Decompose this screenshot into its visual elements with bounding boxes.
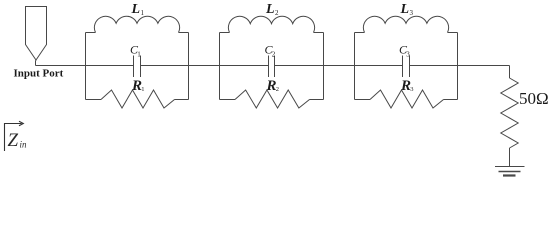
- node Zin: impedance arrow: [5, 121, 24, 151]
- svg-text:in: in: [20, 140, 28, 150]
- wire: main line segment 4: [410, 65, 510, 67]
- wire: to ground: [509, 148, 511, 167]
- inductor L2: [228, 16, 314, 32]
- svg-text:2: 2: [276, 86, 279, 93]
- wire: tank 1 top-left step: [86, 32, 96, 34]
- inductor L3: [363, 16, 448, 32]
- wire: main line segment 1: [36, 65, 134, 67]
- svg-text:Input Port: Input Port: [14, 68, 64, 80]
- resistor R1: [101, 90, 175, 108]
- node: tank 1 left junction: [85, 33, 87, 100]
- capacitor C3: [402, 56, 404, 78]
- wire: tank 2 top-left step: [220, 32, 230, 34]
- svg-text:50Ω: 50Ω: [519, 89, 549, 108]
- wire: right corner down: [509, 66, 511, 79]
- wire: port stem: [35, 60, 38, 66]
- inductor L1: [94, 16, 179, 32]
- svg-text:3: 3: [410, 9, 414, 17]
- svg-text:1: 1: [137, 51, 141, 59]
- wire: main line segment 2: [141, 65, 269, 67]
- resistor R2: [235, 90, 310, 108]
- svg-text:L: L: [400, 2, 410, 17]
- svg-text:L: L: [265, 2, 275, 17]
- wire: tank 1 top-right step: [179, 32, 189, 34]
- svg-text:3: 3: [410, 86, 413, 93]
- input port P1: [26, 7, 47, 61]
- svg-text:1: 1: [141, 9, 145, 17]
- svg-text:Z: Z: [8, 130, 19, 151]
- node: tank 2 left junction: [219, 33, 221, 100]
- svg-text:2: 2: [272, 51, 276, 59]
- node: tank 2 right junction: [323, 33, 325, 100]
- svg-text:1: 1: [141, 86, 144, 93]
- resistor RL 50ohm: [501, 78, 518, 148]
- svg-text:L: L: [131, 2, 141, 17]
- wire: tank 3 bottom-left: [355, 99, 371, 101]
- wire: tank 3 top-left step: [355, 32, 365, 34]
- wire: tank 2 bottom-right: [310, 99, 324, 101]
- wire: tank 2 bottom-left: [220, 99, 236, 101]
- wire: main line segment 3: [275, 65, 403, 67]
- wire: tank 3 bottom-right: [444, 99, 458, 101]
- wire: tank 1 bottom-left: [86, 99, 102, 101]
- wire: tank 1 bottom-right: [175, 99, 189, 101]
- capacitor C1: [133, 56, 135, 78]
- resistor R3: [370, 90, 444, 108]
- node: tank 1 right junction: [188, 33, 190, 100]
- ground: [495, 167, 525, 176]
- svg-text:2: 2: [275, 9, 279, 17]
- wire: tank 2 top-right step: [314, 32, 324, 34]
- wire: tank 3 top-right step: [448, 32, 458, 34]
- node: tank 3 left junction: [354, 33, 356, 100]
- node: tank 3 right junction: [457, 33, 459, 100]
- capacitor C2: [268, 56, 270, 78]
- svg-text:3: 3: [406, 51, 410, 59]
